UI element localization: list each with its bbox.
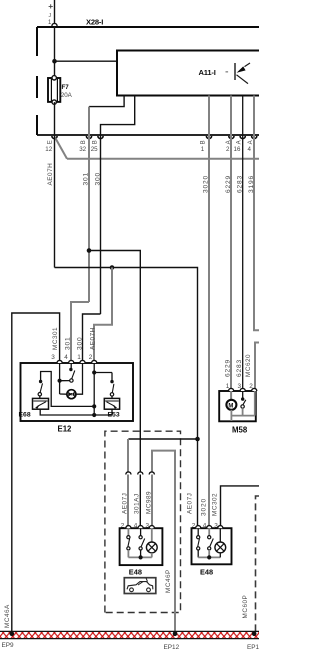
- wire 300 vertical: [100, 135, 102, 314]
- svg-text:X28-I: X28-I: [86, 18, 103, 27]
- svg-text:MC620: MC620: [245, 354, 252, 377]
- svg-text:M: M: [228, 403, 233, 409]
- wire MC620 from right edge: [255, 343, 259, 392]
- M58 internal: motor M: [230, 391, 232, 400]
- node junction 301 branch: [87, 248, 92, 253]
- component box E48 right: [192, 528, 232, 564]
- svg-text:EP1: EP1: [247, 644, 259, 651]
- svg-text:AE07J: AE07J: [122, 493, 129, 514]
- svg-text:300: 300: [77, 336, 84, 350]
- E12 internal: switch S-mid: [70, 363, 72, 368]
- wire fuse to connector pin 12E: [54, 102, 56, 135]
- component E68 rheostat: [19, 398, 49, 418]
- wire 301 vertical: [88, 135, 90, 302]
- svg-text:+: +: [48, 1, 53, 11]
- E12 internal: pin2 wire: [93, 363, 95, 415]
- wire MC302 from right edge: [221, 486, 260, 528]
- svg-text:B: B: [81, 140, 87, 144]
- wire 300 step to E12 pin 1: [83, 314, 101, 363]
- wire A11-I pin 4A (3196): [253, 96, 255, 136]
- wire A11-I to pin 32B: [89, 96, 124, 107]
- E12 internal: pin3 wire and junction: [59, 363, 61, 394]
- svg-text:1: 1: [77, 354, 81, 361]
- svg-text:F7: F7: [62, 84, 70, 91]
- wire AE07H split diagonal: [55, 137, 67, 159]
- svg-text:20A: 20A: [61, 92, 73, 99]
- car icon box: [124, 578, 156, 594]
- wire MC301 from E12 pin 3: [12, 313, 60, 631]
- svg-text:16: 16: [234, 146, 241, 153]
- svg-text:MC46A: MC46A: [4, 604, 11, 628]
- rail X28-I: [37, 26, 259, 28]
- connector rail (bus): [37, 134, 259, 136]
- ground bar: [0, 631, 259, 638]
- component box E48 left: [120, 528, 163, 565]
- wire 301AJ branch: [89, 251, 140, 529]
- svg-text:EP12: EP12: [164, 644, 180, 651]
- svg-text:MC60P: MC60P: [242, 595, 249, 619]
- wire AE07H main vertical: [54, 135, 56, 268]
- node junction AE07J: [195, 437, 200, 442]
- svg-text:AE07H: AE07H: [90, 327, 97, 350]
- M58 internal: bottom bus: [231, 415, 254, 417]
- wire AE07J branch left: [128, 438, 197, 440]
- op-amp U1 placeholder removed: control unit A11-I box: [117, 51, 259, 96]
- node junction A: [52, 59, 57, 64]
- svg-text:MC302: MC302: [212, 493, 219, 516]
- svg-text:1: 1: [201, 146, 205, 153]
- wire A11-I pin 2A (6229): [230, 96, 232, 136]
- svg-text:2: 2: [226, 146, 230, 153]
- svg-text:J: J: [49, 13, 52, 19]
- wire 3196 to right edge: [254, 135, 259, 330]
- svg-text:301: 301: [65, 336, 72, 350]
- inline connector bumps lamps left: [126, 472, 155, 475]
- svg-text:MC301: MC301: [52, 327, 59, 350]
- ground EP12: [173, 632, 178, 637]
- icon light sensor in A11-I: [226, 63, 251, 84]
- svg-text:3: 3: [51, 354, 55, 361]
- E48 right internals: [197, 528, 226, 559]
- svg-text:301: 301: [83, 172, 90, 186]
- svg-text:AE07J: AE07J: [187, 493, 194, 514]
- ground EP9: [10, 632, 15, 637]
- svg-text:25: 25: [91, 146, 98, 153]
- wire 3020 long vertical: [208, 135, 210, 528]
- svg-text:4: 4: [248, 146, 252, 153]
- svg-text:EP9: EP9: [2, 642, 15, 649]
- svg-text:B: B: [200, 140, 206, 144]
- svg-text:A: A: [237, 140, 243, 144]
- svg-text:B: B: [93, 140, 99, 144]
- node junction AE07H drop: [110, 265, 115, 270]
- wire branch to A11-I: [55, 60, 118, 62]
- E12 internal: switch S-left path: [41, 372, 95, 407]
- svg-text:E: E: [47, 140, 53, 144]
- connector bumps E12: [57, 360, 97, 363]
- wire A11-I pin 1B (3020): [208, 96, 210, 136]
- dashed box harness 2: [256, 496, 260, 631]
- component E53 rheostat: [104, 398, 120, 418]
- E48 left internals: [127, 528, 157, 559]
- svg-text:6229: 6229: [225, 359, 232, 377]
- component box M58: [219, 391, 256, 421]
- svg-text:MC46P: MC46P: [165, 569, 172, 593]
- svg-text:E48: E48: [129, 568, 142, 577]
- wire AE07H turn right: [55, 268, 198, 440]
- connector bumps M58: [229, 388, 257, 391]
- wire feed to fuse: [54, 27, 56, 79]
- dashed left boundary: [36, 27, 38, 56]
- E12 internal: motor fan M: [67, 390, 76, 399]
- wire 301 step to E12 pin 4: [71, 302, 89, 363]
- M58 internal: switch: [242, 391, 244, 398]
- fuse F7 20A: [48, 76, 73, 105]
- svg-text:MC989: MC989: [146, 491, 153, 514]
- svg-text:A11-I: A11-I: [199, 68, 216, 77]
- wire gray drop to E12 pin 2: [94, 268, 112, 364]
- svg-text:E48: E48: [200, 568, 213, 577]
- wire AE07J left vertical: [127, 439, 129, 528]
- svg-text:3020: 3020: [201, 498, 208, 516]
- svg-text:4: 4: [64, 354, 68, 361]
- svg-text:AE07H: AE07H: [47, 163, 54, 186]
- svg-text:6283: 6283: [236, 359, 243, 377]
- component box E12: [21, 363, 134, 421]
- wire 6229 vertical: [230, 135, 232, 391]
- wire MC989 bridge: [152, 451, 175, 632]
- svg-text:32: 32: [79, 146, 86, 153]
- wire A11-I pin 16A (6283): [242, 96, 244, 136]
- E12 internal: pin1 wire to motor: [76, 363, 83, 394]
- wire AE07H branch to right edge: [67, 158, 259, 160]
- connector bumps on bus: [52, 136, 257, 139]
- dashed box harness 1: [105, 431, 181, 612]
- wire battery + feed: [54, 0, 56, 27]
- svg-text:301AJ: 301AJ: [134, 493, 141, 514]
- svg-text:E68: E68: [19, 412, 31, 419]
- svg-text:12: 12: [45, 146, 52, 153]
- E12 internal: bottom bus: [40, 409, 112, 415]
- ground EP1: [252, 632, 257, 637]
- E12 internal: switch S-right: [94, 372, 112, 374]
- svg-text:M58: M58: [232, 426, 248, 435]
- wire A11-I to pin 25B: [101, 96, 135, 136]
- wire AE07J right vertical to lamp: [197, 439, 199, 528]
- wire 6283 vertical: [242, 135, 244, 391]
- svg-text:2: 2: [89, 354, 93, 361]
- svg-text:E12: E12: [58, 425, 73, 434]
- connector bump X28-I pin 1: [52, 23, 57, 26]
- svg-text:300: 300: [95, 172, 102, 186]
